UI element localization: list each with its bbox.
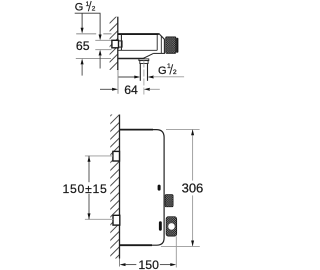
dim 306 bottom ext line (161, 245, 200, 247)
valve body chamfer top right (159, 33, 165, 39)
outlet pipe right line (147, 64, 149, 81)
svg-text:2: 2 (173, 69, 177, 76)
dim 150+-15 arrows (88, 156, 91, 162)
label G 1/2 (right) (158, 63, 177, 77)
body bottom edge thicker (120, 244, 153, 246)
dim 150 bottom: left arrow (120, 263, 126, 266)
wall face line (top view) (117, 17, 119, 70)
valve body left face line (120, 34, 122, 50)
ext line body bottom (line D) (76, 58, 111, 60)
svg-text:64: 64 (124, 83, 138, 97)
valve body bottom chamfer (143, 53, 153, 58)
dim 150+-15 line (88, 156, 90, 219)
outlet nut flange (139, 59, 149, 61)
tick mark 1 on body (158, 185, 161, 191)
knurled knob 1 (lower view) (165, 195, 173, 207)
smartcontrol button knob (166, 217, 177, 236)
inlet square (112, 40, 119, 48)
leader from G1/2 to body top ext line (81, 13, 83, 28)
dim 306 line upper segment (192, 129, 194, 180)
wall face line (lower view) (119, 115, 121, 259)
valve inner face line 2 (160, 36, 162, 53)
underline of G 1/2 (top) (75, 12, 101, 14)
svg-text:G: G (75, 2, 84, 14)
dim 150+-15 bottom ext line (85, 218, 113, 220)
body top edge thicker (120, 129, 154, 131)
knurled knob (top view) (166, 37, 176, 53)
arrow up at line D (81, 59, 84, 65)
thermostat body outline (120, 130, 165, 246)
valve body right face (163, 39, 165, 54)
button circle (168, 223, 175, 230)
lower wall connector square (113, 215, 120, 225)
knob end cap (176, 38, 178, 53)
inlet stub (119, 41, 123, 47)
svg-text:G: G (158, 65, 167, 77)
outlet centerline (143, 61, 145, 96)
svg-text:150±15: 150±15 (63, 182, 108, 196)
valve body bottom right shelf (153, 52, 164, 54)
svg-text:65: 65 (76, 39, 90, 53)
arrow to pipe right edge (from G1/2 label) (148, 76, 154, 79)
dim 64 right arrow + tail (144, 88, 150, 91)
arrow up at line C (99, 50, 102, 56)
svg-text:1: 1 (167, 63, 171, 70)
ext line inlet bottom (line C) (95, 49, 111, 51)
valve body bottom edge (118, 58, 144, 60)
ext line inlet top (line B) (95, 39, 111, 41)
wall hatching (top view) (110, 17, 118, 70)
dim 306 top ext line (166, 128, 200, 130)
outlet pipe left line (139, 64, 141, 81)
dim 150+-15 top ext line (85, 155, 113, 157)
svg-text:2: 2 (92, 6, 96, 13)
arrow to pipe left edge (118, 76, 135, 78)
dim 150 right arrow (160, 264, 171, 266)
dim 150 right ext line (175, 236, 177, 267)
leader from G1/2 to inlet square top ext (99, 13, 101, 35)
svg-text:150: 150 (138, 258, 159, 270)
dim 150+-15 text bg (62, 182, 107, 194)
tick mark 2 on body (159, 221, 162, 230)
valve inner face line 1 (156, 35, 158, 51)
underline of right G 1/2 (153, 76, 184, 78)
svg-text:306: 306 (182, 180, 204, 195)
wall face ext for 150 dim (119, 259, 121, 267)
dim 306 arrows (191, 129, 194, 135)
dim 306 line lower segment (192, 195, 194, 246)
svg-text:1: 1 (86, 1, 90, 8)
ext line body top (line A) (76, 33, 111, 35)
wall hatching (lower view) (110, 115, 119, 259)
wall face extension line below wall (117, 70, 119, 94)
label G 1/2 (top) (75, 1, 96, 14)
upper wall connector square (113, 151, 120, 161)
outlet nut (140, 61, 148, 64)
valve body top edge (thick) (118, 33, 159, 35)
dim 64 left tail + arrow (100, 88, 113, 90)
valve body mid line (118, 49, 157, 51)
